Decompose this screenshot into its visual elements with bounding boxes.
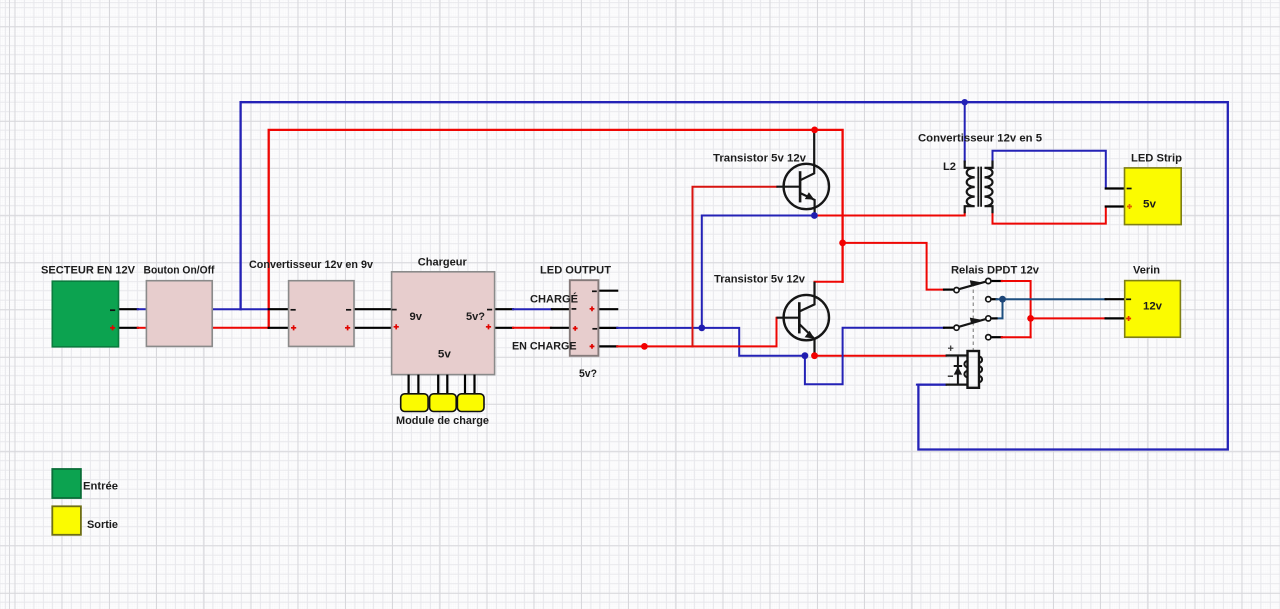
wire blue ground loop: Bouton '-' net up over top to right side, bottom and back to relay coil '-' xyxy=(241,102,1228,449)
junction dot blue at Q1 emitter node xyxy=(811,212,818,219)
svg-text:Transistor 5v 12v: Transistor 5v 12v xyxy=(713,153,807,165)
junction dot blue at Q2 emitter node xyxy=(802,352,809,359)
wire red transistor1 emitter node to transformer L2 primary bottom xyxy=(814,213,964,216)
wire relay pole2 contact bottom to red vertical xyxy=(991,336,1002,338)
transistor Q2 Transistor 5v 12v (bottom, NPN) xyxy=(777,282,830,356)
svg-text:Entrée: Entrée xyxy=(83,481,118,493)
wire blue transistor2 emitter node around to relay pole2 common xyxy=(805,328,944,385)
svg-text:CHARGÉ: CHARGÉ xyxy=(530,293,578,306)
wire red +12V loop: Bouton '+' net up over top toward transistors/relay xyxy=(269,130,843,328)
relay pole 2 common terminal xyxy=(954,325,959,330)
wire red transistor2 collector to +12V vertical xyxy=(815,281,843,283)
LED Strip (yellow box) xyxy=(1125,168,1182,225)
coil body xyxy=(968,351,980,388)
wire Convertisseur 9v '+' to Chargeur '+' (black) xyxy=(354,327,393,329)
wire blue relay coil '-' lead to ground loop xyxy=(917,384,946,386)
svg-text:Module de charge: Module de charge xyxy=(396,415,489,427)
junction dot red at top red rail / Q1 collector xyxy=(811,126,818,133)
module de charge cell 1 (yellow rounded box) xyxy=(401,394,428,412)
core xyxy=(978,167,981,207)
relay contact NC2 xyxy=(986,335,991,340)
transistor Q1 Transistor 5v 12v (top, NPN) xyxy=(776,130,829,216)
wire LED OUTPUT right pin2 stub (unconnected) xyxy=(599,308,617,310)
relay pole 1 common terminal xyxy=(954,288,959,293)
relay contact NO1 xyxy=(986,278,991,283)
module de charge cell 2 (yellow rounded box) xyxy=(430,394,457,412)
pin marker LED OUTPUT right pin1 '-' xyxy=(592,290,597,292)
primary winding (left) xyxy=(965,161,975,214)
svg-text:LED OUTPUT: LED OUTPUT xyxy=(540,265,611,277)
pin marker LED Strip '-' xyxy=(1127,188,1132,190)
wire steel blue relay NC to Verin '-' xyxy=(1003,298,1106,300)
wire relay pole1 NO contact to red vertical to Verin '+' xyxy=(991,280,1002,282)
svg-text:5v: 5v xyxy=(438,349,452,361)
legend swatch Entrée (green box) xyxy=(52,469,81,498)
wire Chargeur 5v? '+' to LED OUTPUT left '+' (black, red middle) xyxy=(495,327,513,329)
pin marker Convertisseur9v left '+' xyxy=(291,325,296,330)
module de charge cell 3 (yellow rounded box) xyxy=(457,394,484,412)
relay pole 2 switch arm with arrow xyxy=(958,319,987,327)
LED OUTPUT indicator (small pink box) xyxy=(570,280,599,356)
junction dot blue on pin3 net at x=701.8 xyxy=(698,325,705,332)
coil polarity marker - xyxy=(948,375,953,377)
switch Bouton On/Off (pink box) xyxy=(146,281,212,347)
svg-text:Transistor 5v 12v: Transistor 5v 12v xyxy=(714,274,806,286)
pin marker LED OUTPUT right pin3 '-' xyxy=(592,328,597,330)
charger Chargeur (large pink box) xyxy=(392,272,495,375)
wire red transistor2 emitter node to relay coil '+' xyxy=(815,355,946,357)
legend swatch Sortie (yellow box) xyxy=(52,506,81,535)
junction dot red at Q2 emitter node xyxy=(811,352,818,359)
wire SECTEUR '-' to Bouton (black leads + blue middle) xyxy=(119,308,138,310)
pin marker LED OUTPUT right pin4 '+' xyxy=(590,344,595,349)
pin marker Convertisseur9v right '-' xyxy=(346,309,351,311)
svg-text:5v?: 5v? xyxy=(466,311,485,323)
svg-text:EN CHARGE: EN CHARGE xyxy=(512,341,577,353)
pin marker Chargeur left '-' xyxy=(392,309,397,311)
relay pole 1 switch arm with arrow xyxy=(958,282,987,290)
diode D1 flyback xyxy=(957,356,959,385)
junction dot blue at top rail / transformer xyxy=(962,99,968,105)
wire blue transistor1 emitter node down to pin3 blue net xyxy=(702,216,815,328)
svg-text:Convertisseur 12v en 9v: Convertisseur 12v en 9v xyxy=(249,259,374,271)
pin marker SECTEUR '+' xyxy=(110,325,115,330)
junction dot red at relay vertical / Verin '+' xyxy=(1027,315,1034,322)
svg-text:L2: L2 xyxy=(943,161,956,173)
junction dot steel blue at relay NC1 xyxy=(999,296,1006,303)
svg-text:5v: 5v xyxy=(1143,199,1157,211)
wire SECTEUR '+' to Bouton (black leads + red middle) xyxy=(119,327,138,329)
wire chargeur bottom pins to charge modules (6 black leads) xyxy=(409,375,475,394)
pin marker Verin '-' xyxy=(1126,298,1131,300)
pin marker Verin '+' xyxy=(1126,316,1131,321)
svg-text:Relais DPDT 12v: Relais DPDT 12v xyxy=(951,265,1040,277)
wire red lead into relay pole1 common xyxy=(944,289,954,291)
wire LED OUTPUT right pin1 stub (unconnected) xyxy=(599,290,617,292)
pin marker LED OUTPUT left '+' xyxy=(573,326,578,331)
relay contact NC1 xyxy=(986,297,991,302)
relay contact NO2 xyxy=(986,316,991,321)
svg-text:12v: 12v xyxy=(1143,301,1163,313)
wire Bouton '-' to Convertisseur 9v '-' (blue then black lead) xyxy=(212,308,269,310)
coil bottom lead xyxy=(946,384,968,386)
svg-text:Verin: Verin xyxy=(1133,265,1160,277)
pin marker LED OUTPUT right pin2 '+' xyxy=(590,306,595,311)
wire red branch from +12V vertical to relay pole1 common xyxy=(843,243,944,290)
svg-text:5v?: 5v? xyxy=(579,368,597,380)
junction dot red on +12V vertical branch to relay xyxy=(839,240,846,247)
svg-text:LED Strip: LED Strip xyxy=(1131,153,1182,165)
pin marker Chargeur right '+' xyxy=(486,324,491,329)
pin marker Convertisseur9v right '+' xyxy=(345,325,350,330)
relay Relais DPDT 12v : dashed actuator link xyxy=(972,283,974,351)
wire red LED OUTPUT pin4 to transistor2 base xyxy=(617,318,776,347)
svg-text:Convertisseur 12v en 5: Convertisseur 12v en 5 xyxy=(918,133,1042,145)
wire relay pole1 NC contact bridge to pole2 NO contact (steel blue) xyxy=(991,298,997,300)
svg-text:9v: 9v xyxy=(410,311,423,323)
junction dot red on EN CHARGE net xyxy=(641,343,648,350)
transformer L2 Convertisseur 12v en 5 xyxy=(965,161,993,214)
svg-text:Bouton On/Off: Bouton On/Off xyxy=(144,265,215,277)
pin marker Convertisseur9v left '-' xyxy=(291,309,296,311)
power source SECTEUR EN 12V (green box) xyxy=(52,281,118,347)
wire blue transformer L2 primary top up to blue top rail xyxy=(964,102,966,161)
wire LED OUTPUT right pin4 lead xyxy=(599,345,617,347)
pin marker LED Strip '+' xyxy=(1127,204,1132,209)
svg-text:SECTEUR EN 12V: SECTEUR EN 12V xyxy=(41,265,136,277)
pin marker SECTEUR '-' xyxy=(110,309,115,311)
pin marker Chargeur left '+' xyxy=(394,324,399,329)
secondary winding (right) xyxy=(985,161,993,214)
coil polarity marker + xyxy=(948,346,953,351)
wire Convertisseur 9v '-' to Chargeur '-' (black) xyxy=(354,308,393,310)
svg-text:Sortie: Sortie xyxy=(87,519,118,531)
wire transformer L2 secondary bottom to LED Strip '+' (red) xyxy=(993,207,1106,224)
wire Chargeur 5v? '-' to LED OUTPUT left '-' (black, blue middle) xyxy=(495,308,513,310)
pin marker LED OUTPUT left '-' xyxy=(572,308,577,310)
wire blue lead into relay pole2 common xyxy=(944,327,954,329)
svg-text:Chargeur: Chargeur xyxy=(418,257,468,269)
relay coil with flyback diode xyxy=(946,351,983,388)
wire Bouton '+' to Convertisseur 9v '+' (red then black lead) xyxy=(212,327,269,329)
pin marker Chargeur right '-' xyxy=(487,309,492,311)
wire red transistor1 base branch down to EN CHARGE net xyxy=(693,187,777,347)
wire blue LED OUTPUT pin3 to transistor2 emitter node xyxy=(617,328,805,356)
wire LED OUTPUT right pin3 lead xyxy=(599,327,617,329)
converter Convertisseur 12v en 9v (pink box) xyxy=(289,281,354,347)
actuator Verin (yellow box) xyxy=(1125,281,1181,338)
wire transformer L2 secondary top to LED Strip '-' (blue) xyxy=(993,151,1106,189)
coil top lead xyxy=(946,354,968,356)
